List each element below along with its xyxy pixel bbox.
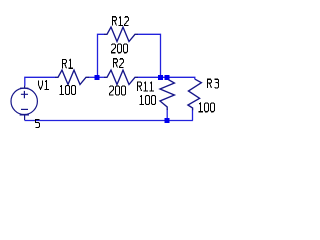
wire R11 bottom lead [166, 109, 168, 121]
label R11 [138, 82, 155, 91]
wire R1 to node A [89, 76, 99, 78]
resistor R3 [188, 79, 202, 110]
wire R2 to node B and R3 top [138, 77, 195, 79]
wire top-left from V1 to R1 [25, 77, 55, 86]
resistor R1 [55, 70, 89, 84]
label R3 [208, 79, 219, 88]
junction node C (R11 top) [165, 75, 170, 80]
junction node B [158, 75, 163, 80]
resistor R2 [104, 70, 138, 84]
label V1 [39, 81, 50, 90]
value 100 (R11) [139, 96, 155, 105]
value 200 (R2) [110, 86, 126, 95]
value 100 (R1) [59, 86, 75, 95]
label R2 [114, 59, 124, 68]
wire R3 bottom lead [192, 110, 194, 121]
value 200 (R12) [112, 44, 128, 53]
wire bottom rail node 5 [25, 120, 193, 122]
value 100 (R3) [198, 103, 214, 112]
wire R12 loop left [98, 34, 105, 76]
label R1 [63, 59, 74, 68]
label R12 [113, 17, 129, 26]
junction node A [95, 75, 100, 80]
node label 5 [36, 120, 40, 128]
resistor R12 [104, 27, 138, 41]
junction node D (R11 bottom) [165, 118, 170, 123]
voltage source V1 [11, 86, 37, 121]
resistor R11 [160, 76, 174, 110]
wire R12 loop right [138, 34, 161, 76]
wire node A to R2 [97, 76, 104, 78]
